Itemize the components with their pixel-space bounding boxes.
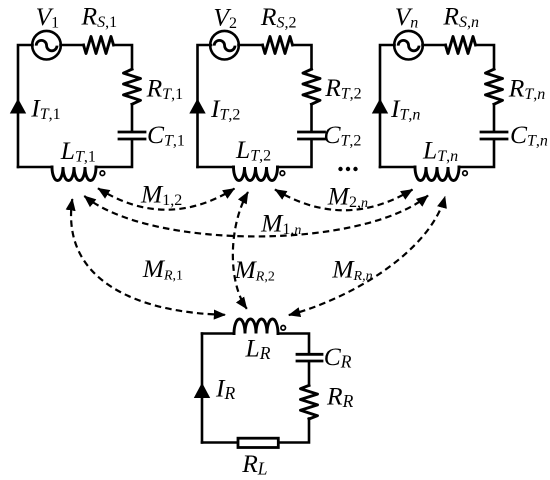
wire: resistor RT,2 to capacitor CT,2	[310, 104, 313, 131]
dot marker of LR	[281, 326, 286, 331]
svg-text:CT,2: CT,2	[324, 120, 362, 150]
svg-text:RT,1: RT,1	[146, 73, 183, 103]
svg-text:MR,1: MR,1	[142, 254, 183, 284]
ellipsis between circuit 2 and circuit n	[338, 167, 357, 171]
coupling arrow MR,2	[233, 192, 248, 309]
resistor RS,2	[263, 37, 293, 54]
svg-text:V2: V2	[213, 2, 237, 32]
capacitor CT,2	[299, 132, 325, 139]
wire: capacitor CT,n down and bottom-right of circuit n	[459, 140, 494, 167]
coupling arrow MR,n	[289, 197, 445, 316]
wire: top-left corner and left side of circuit 2	[198, 45, 212, 167]
wire: capacitor CT,2 down and bottom-right of circuit 2	[278, 140, 312, 167]
wire: top-left of receiver	[202, 332, 234, 335]
coupling arrow M2,n	[275, 190, 413, 211]
AC source V1	[32, 31, 61, 60]
svg-text:MR,2: MR,2	[234, 255, 275, 285]
inductor LR	[234, 319, 278, 334]
inductor LT,2	[234, 167, 278, 181]
svg-text:RT,2: RT,2	[324, 73, 361, 103]
wire: top-right corner of circuit 1	[114, 45, 132, 69]
wire: left side of receiver	[201, 334, 204, 443]
wire: bottom-left of circuit 2	[198, 166, 234, 169]
current arrow IT,1	[10, 99, 26, 114]
load resistor RL	[238, 438, 278, 447]
svg-text:RR: RR	[326, 382, 354, 412]
svg-text:LR: LR	[245, 334, 271, 364]
wire: capacitor CR to resistor RR	[308, 362, 311, 385]
resistor RR	[301, 385, 318, 419]
wire: source to resistor RS,2	[239, 44, 263, 47]
wire: bottom-left of circuit n	[380, 166, 415, 169]
wire: top-right corner of circuit n	[476, 45, 494, 69]
wire: resistor RT,1 to capacitor CT,1	[131, 104, 134, 131]
dot marker of LT,1	[100, 171, 105, 176]
dot marker of LT,n	[463, 171, 468, 176]
resistor RS,1	[84, 37, 114, 54]
capacitor CT,1	[119, 132, 145, 139]
svg-text:IT,n: IT,n	[390, 94, 420, 124]
svg-text:CT,n: CT,n	[510, 120, 548, 150]
resistor RT,1	[124, 69, 141, 104]
wire: capacitor CT,1 down and bottom-right of circuit 1	[96, 140, 132, 167]
svg-text:Vn: Vn	[395, 2, 419, 32]
svg-text:IR: IR	[215, 374, 236, 404]
svg-text:RS,2: RS,2	[260, 2, 297, 32]
svg-text:IT,1: IT,1	[30, 94, 60, 124]
inductor LT,1	[52, 167, 96, 181]
wire: top-right of receiver	[278, 334, 309, 354]
wire: resistor RT,n to capacitor CT,n	[493, 104, 496, 131]
svg-text:MR,n: MR,n	[331, 255, 372, 285]
coupling arrow MR,1	[71, 199, 225, 315]
capacitor CR	[297, 354, 322, 361]
current arrow IR	[194, 383, 210, 398]
svg-text:RS,n: RS,n	[442, 2, 479, 32]
current arrow IT,2	[189, 99, 205, 114]
wire: source to resistor RS,n	[423, 44, 446, 47]
dot marker of LT,2	[280, 171, 285, 176]
wire: top-left corner and left side of circuit 1	[18, 45, 33, 167]
resistor RT,2	[303, 69, 320, 104]
resistor RS,n	[446, 37, 476, 54]
svg-text:RS,1: RS,1	[81, 2, 118, 32]
svg-text:LT,1: LT,1	[60, 136, 96, 166]
wire: top-left corner and left side of circuit n	[380, 45, 395, 167]
svg-text:IT,2: IT,2	[210, 94, 240, 124]
svg-text:CR: CR	[324, 342, 352, 372]
coupling arrow M1,n	[84, 196, 428, 237]
wire: source to resistor RS,1	[61, 44, 84, 47]
capacitor CT,n	[481, 132, 507, 139]
svg-text:M1,n: M1,n	[260, 208, 301, 238]
svg-text:LT,n: LT,n	[422, 136, 458, 166]
current arrow IT,n	[372, 99, 388, 114]
inductor LT,n	[415, 167, 459, 181]
AC source V2	[210, 31, 239, 60]
svg-text:RL: RL	[241, 449, 267, 479]
wire: resistor RR to bottom-right corner	[280, 419, 310, 443]
coupling arrow M1,2	[98, 188, 235, 209]
wire: top-right corner of circuit 2	[293, 45, 312, 69]
svg-text:LT,2: LT,2	[235, 135, 271, 165]
AC source Vn	[394, 31, 423, 60]
svg-text:RT,n: RT,n	[508, 73, 545, 103]
svg-text:CT,1: CT,1	[147, 120, 185, 150]
wire: bottom-left of circuit 1	[18, 166, 52, 169]
svg-text:M2,n: M2,n	[327, 181, 368, 211]
svg-text:M1,2: M1,2	[140, 180, 182, 210]
resistor RT,n	[486, 69, 503, 104]
svg-text:V1: V1	[36, 2, 60, 32]
wire: bottom-left of receiver	[202, 441, 237, 444]
